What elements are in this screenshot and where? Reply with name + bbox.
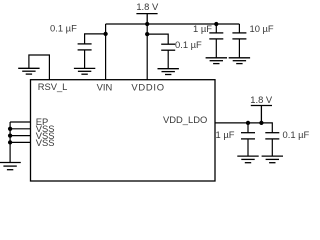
svg-text:VIN: VIN [97, 82, 113, 93]
node junction VDD_LDO / 1.8V tap [259, 121, 263, 125]
svg-text:1.8 V: 1.8 V [250, 94, 273, 105]
wire C5 to VDD_LDO [247, 123, 249, 133]
svg-text:0.1 µF: 0.1 µF [283, 129, 310, 140]
capacitor C5 1 uF [241, 133, 255, 139]
node junction VSS 3 [8, 140, 12, 144]
node junction VDD_LDO / C5 [246, 121, 250, 125]
wire EP pin [10, 121, 30, 123]
wire RSV_L pin to ground [29, 55, 50, 80]
wire C2 to ground [167, 50, 169, 68]
wire VDD_LDO pin [215, 123, 272, 133]
svg-text:VDDIO: VDDIO [131, 82, 164, 93]
capacitor C6 0.1 uF [265, 133, 279, 139]
svg-text:VDD_LDO: VDD_LDO [163, 114, 207, 125]
capacitor C4 10 uF [232, 33, 246, 39]
wire rail to C4 [238, 24, 240, 33]
svg-text:1 µF: 1 µF [216, 129, 235, 140]
node junction VSS 1 [8, 127, 12, 131]
node junction VDDIO / C2 [145, 32, 149, 36]
ground (C3) [206, 58, 227, 64]
power tap 1.8 V (top) [136, 14, 157, 24]
node junction rail / 1uF [214, 22, 218, 26]
wire C3 to rail [215, 24, 217, 33]
svg-text:0.1 µF: 0.1 µF [175, 39, 202, 50]
svg-text:10 µF: 10 µF [250, 23, 274, 34]
ground (C5) [237, 156, 258, 163]
wire 1.8 V rail [106, 23, 240, 25]
wire C3 to ground [215, 39, 217, 58]
wire C5 to ground [247, 139, 249, 156]
wire C1 to VIN [85, 34, 106, 44]
node junction VIN / C1 [103, 32, 107, 36]
ground (VSS bus) [0, 163, 21, 170]
power tap 1.8 V (VDD_LDO) [251, 106, 272, 123]
ground (C2) [158, 69, 179, 75]
capacitor C3 1 uF [209, 33, 223, 39]
wire VSS pin 2 [10, 135, 30, 137]
capacitor C1 0.1 uF [78, 44, 92, 50]
IC block U1 [31, 80, 216, 181]
ground (C6) [262, 156, 283, 163]
svg-text:0.1 µF: 0.1 µF [50, 22, 77, 33]
svg-text:1.8 V: 1.8 V [136, 1, 159, 12]
svg-text:RSV_L: RSV_L [38, 81, 68, 92]
wire VDDIO pin [146, 24, 148, 80]
wire C4 to ground [238, 39, 240, 58]
node junction VSS 2 [8, 133, 12, 137]
wire C1 to ground [84, 50, 86, 68]
ground (RSV_L) [18, 68, 39, 74]
wire C2 to VDDIO [147, 34, 168, 44]
svg-text:VSS: VSS [36, 137, 55, 148]
ground (C1) [74, 68, 95, 74]
ground (C4) [229, 58, 250, 64]
node junction rail / 1.8V tap [145, 22, 149, 26]
wire VSS pin 1 [10, 128, 30, 130]
wire VIN pin [105, 24, 107, 80]
wire VSS pin 3 [10, 141, 30, 143]
wire VSS bus to ground [9, 122, 11, 162]
wire C6 to ground [271, 139, 273, 156]
capacitor C2 0.1 uF [161, 44, 175, 50]
